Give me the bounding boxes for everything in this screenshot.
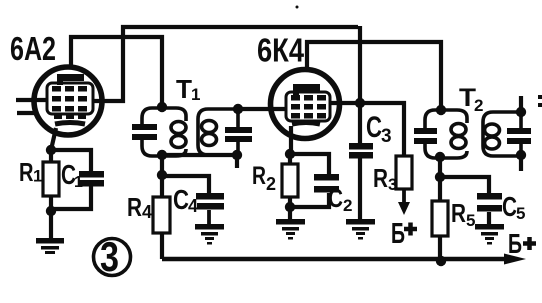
svg-text:4: 4 (142, 202, 152, 222)
node R1 bottom (46, 206, 56, 216)
capacitor C5 (477, 193, 502, 212)
transformer T1 secondary tank outline (198, 109, 238, 155)
svg-text:C: C (502, 191, 517, 222)
wire C5 bottom to ground (487, 212, 491, 224)
node T2 primary top (436, 105, 446, 115)
svg-text:5: 5 (516, 204, 525, 223)
svg-text:3: 3 (100, 233, 119, 280)
transformer T2 primary coil loops (451, 124, 466, 136)
wire R1 top lead (49, 150, 53, 162)
transformer T1 primary tank outline (142, 108, 186, 156)
node T2 secondary top (516, 107, 526, 117)
wire stub below T1 secondary bottom (235, 155, 239, 168)
svg-text:2: 2 (474, 96, 483, 115)
wire R1 bottom to ground (49, 196, 53, 238)
wire R5 bottom to rail (438, 236, 442, 261)
node T2 secondary bottom (516, 150, 526, 160)
wire C2 branch bottom (290, 193, 329, 207)
wire C4 bottom lead (207, 210, 211, 224)
tube 6K4 cathode bar (292, 123, 320, 125)
resistor R1 (43, 162, 59, 196)
node R5 C5 branch (435, 172, 445, 182)
svg-text:5: 5 (466, 211, 475, 230)
svg-text:3: 3 (381, 126, 392, 147)
transformer T2 secondary tank outline (483, 112, 521, 156)
arrow below R3 to B+ (402, 190, 406, 205)
wire C4 branch (162, 176, 209, 193)
svg-text:C: C (173, 184, 189, 215)
svg-text:R: R (451, 198, 466, 228)
figure number 3 in circle (94, 239, 131, 276)
wire T1 secondary top to 6K4 grid (238, 107, 287, 111)
resistor R5 (432, 201, 448, 236)
transformer T1 primary capacitor (132, 124, 157, 140)
svg-text:1: 1 (74, 174, 83, 191)
tube 6K4 grid box (286, 92, 330, 121)
svg-text:R: R (19, 157, 34, 187)
node R2 bottom (285, 202, 295, 212)
svg-text:2: 2 (343, 196, 352, 215)
tube 6K4 envelope (271, 70, 340, 139)
node T1 primary top (157, 102, 167, 112)
tube 6A2 envelope (34, 67, 102, 135)
svg-text:4: 4 (188, 196, 198, 216)
tube 6A2 cathode bar (55, 123, 85, 125)
node T1 secondary bottom (232, 150, 242, 160)
wire stub above T2 secondary top (519, 96, 523, 112)
wire C3 bottom to ground (358, 158, 362, 219)
wire C1 branch bottom (51, 185, 91, 209)
svg-text:Б: Б (508, 228, 522, 259)
resistor R2 (282, 164, 298, 197)
wire grid stub 2 at 6A2 left (17, 111, 36, 115)
wire C2 branch top (290, 154, 329, 174)
tube 6A2 grid box (47, 83, 93, 114)
capacitor C1 (79, 171, 104, 187)
wire R2 bottom to ground (288, 197, 292, 219)
svg-text:2: 2 (266, 174, 276, 194)
ground under R2 (276, 219, 305, 240)
resistor R3 (396, 156, 412, 189)
capacitor C2 (314, 174, 339, 193)
svg-text:Т: Т (176, 74, 192, 104)
wire 6K4 top to T2 primary top (307, 42, 441, 109)
svg-text:3: 3 (388, 175, 397, 194)
speck (296, 6, 299, 9)
svg-text:Б: Б (391, 218, 405, 250)
wire T1 primary bottom down to R4 (160, 155, 164, 197)
svg-text:C: C (328, 183, 343, 213)
wire C5 branch (440, 177, 489, 193)
transformer T1 secondary coil loops (202, 121, 217, 133)
transformer T2 secondary coil loops (485, 124, 500, 136)
node T1 primary bottom (157, 150, 167, 160)
wire screen node horizontal to R3 (330, 103, 404, 156)
node R2 top (285, 149, 295, 159)
tube 6K4 grid dashes (291, 95, 326, 119)
ground under C4 (195, 224, 224, 245)
wire T1 tank bottoms link (162, 153, 237, 157)
svg-text:1: 1 (191, 85, 200, 104)
wire anode 6A2 to T1 primary top (71, 37, 162, 106)
svg-text:6А2: 6А2 (10, 30, 56, 67)
wire 6A2 screen grid to top rail (93, 27, 358, 101)
wire stub below T2 secondary bottom (519, 155, 523, 171)
wire R4 bottom to rail (160, 233, 164, 259)
tube 6A2 anode bar (57, 74, 84, 85)
wire 6K4 cathode lead (290, 126, 291, 164)
wire C1 branch top (51, 150, 91, 172)
node rail R5 junction (436, 256, 446, 266)
ground under R1 (36, 238, 64, 254)
wire grid stub 1 at 6A2 left (16, 98, 47, 102)
node C4 branch (157, 170, 167, 180)
svg-text:C: C (366, 111, 382, 144)
capacitor C4 (196, 193, 224, 210)
wire T2 primary bottom down through node to R5 (438, 155, 442, 201)
capacitor C3 (349, 143, 373, 159)
svg-text:R: R (127, 192, 142, 222)
node R1 top (46, 145, 56, 155)
arrow at end of B+ rail (504, 254, 526, 265)
edge marks right margin (538, 95, 542, 99)
transformer T1 primary coil loops (171, 122, 186, 134)
transformer T2 secondary capacitor (507, 128, 531, 144)
node T1 secondary top (233, 104, 243, 114)
wire B+ bottom rail (162, 257, 509, 262)
wire 6A2 cathode lead (51, 128, 56, 150)
svg-text:6К4: 6К4 (257, 32, 305, 69)
ground under C5 (475, 224, 504, 245)
tube 6K4 anode bar (293, 84, 320, 95)
svg-text:R: R (252, 162, 266, 190)
transformer T1 secondary capacitor (225, 127, 252, 142)
wire vertical screen bus down to node (358, 26, 362, 104)
ground under C3 (346, 219, 375, 240)
node screen bus junction (355, 98, 365, 108)
svg-text:1: 1 (33, 167, 42, 186)
resistor R4 (153, 197, 170, 233)
svg-text:R: R (373, 163, 388, 193)
node T2 primary bottom (435, 152, 445, 162)
transformer T2 primary tank outline (425, 110, 467, 158)
wire C3 top lead (358, 103, 362, 143)
transformer T2 primary capacitor (414, 128, 437, 144)
tube 6A2 grid dashes (52, 86, 87, 119)
